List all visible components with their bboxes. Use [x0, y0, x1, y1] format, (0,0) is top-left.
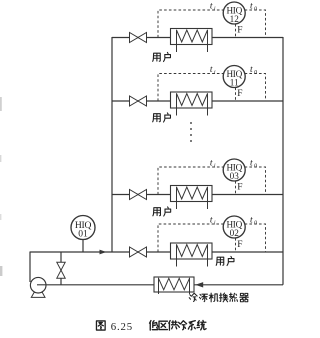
valve: branch 1 (top) two-way control valve: [130, 33, 147, 43]
dashed signal: flow sensor F line, branch 1 (top): [235, 24, 237, 38]
label t0 (outlet temperature), branch 2: [250, 65, 257, 76]
svg-text:01: 01: [78, 229, 88, 240]
valve: branch 3 two-way control valve: [130, 190, 147, 200]
ellipsis: repeated user branches: [190, 122, 192, 142]
svg-text:0: 0: [254, 220, 257, 226]
svg-text:t: t: [210, 159, 213, 169]
label ti (inlet temperature), branch 4 (bottom): [210, 216, 216, 227]
wire: branch 4 (bottom) user circuit pipe: [30, 251, 283, 253]
flow arrow into chiller heat exchanger (points left): [195, 282, 203, 287]
label ti (inlet temperature), branch 1 (top): [210, 2, 216, 13]
wire: bypass line: [60, 252, 62, 285]
controller HIQ 12 (branch 1 (top)): [223, 2, 245, 24]
label ti (inlet temperature), branch 2: [210, 65, 216, 76]
wire: branch 1 (top) user circuit pipe: [112, 37, 283, 39]
svg-text:0: 0: [254, 163, 257, 169]
dashed signal: flow sensor F line, branch 3: [235, 181, 237, 195]
controller HIQ 11 (branch 2): [223, 66, 245, 88]
controller HIQ 01 (supply header): [71, 216, 95, 240]
pump P1 (chilled water pump): [30, 277, 46, 297]
wire: branch 2 user circuit pipe: [112, 100, 283, 102]
heat exchanger: user HX branch 3: [171, 186, 213, 210]
svg-text:11: 11: [230, 78, 239, 88]
dashed signal: outlet temp sensor t0 line, branch 3: [245, 167, 266, 195]
dashed signal: inlet temp sensor ti line, branch 1 (top): [158, 10, 224, 38]
scan artifact marks, left page edge: [0, 97, 2, 276]
label: lengdongji huanreqi (chiller heat exchanger): [189, 293, 248, 302]
wire: branch 3 user circuit pipe: [112, 194, 283, 196]
valve: branch 4 (bottom) two-way control valve: [130, 247, 147, 257]
label F (flow), branch 4 (bottom): [237, 240, 242, 250]
svg-text:F: F: [237, 89, 242, 99]
wire: right return riser: [282, 37, 284, 285]
wire: chiller loop bottom pipe (return side): [194, 284, 284, 286]
label t0 (outlet temperature), branch 1 (top): [250, 2, 257, 13]
svg-text:02: 02: [230, 228, 240, 238]
heat exchanger: user HX branch 2: [171, 92, 213, 116]
label: yonghu (user) branch 3: [153, 207, 171, 216]
label F (flow), branch 3: [237, 182, 242, 192]
label: yonghu (user) branch 1: [153, 52, 171, 61]
heat exchanger: user HX branch 4 (bottom): [171, 243, 213, 267]
controller HIQ 03 (branch 3): [223, 159, 245, 181]
dashed signal: flow sensor F line, branch 2: [235, 88, 237, 102]
label: yonghu (user) branch 2: [153, 113, 171, 122]
dashed signal: inlet temp sensor ti line, branch 3: [158, 167, 224, 195]
label F (flow), branch 1 (top): [237, 25, 242, 35]
wire: HIQ 01 stem to supply pipe: [82, 240, 84, 253]
valve: branch 2 two-way control valve: [130, 96, 147, 106]
label ti (inlet temperature), branch 3: [210, 159, 216, 170]
dashed signal: flow sensor F line, branch 4 (bottom): [235, 238, 237, 252]
svg-text:F: F: [237, 240, 242, 250]
svg-text:t: t: [210, 216, 213, 226]
svg-text:F: F: [237, 182, 242, 192]
wire: left supply riser: [111, 37, 113, 252]
svg-text:6.25: 6.25: [111, 321, 133, 333]
svg-text:0: 0: [254, 70, 257, 76]
svg-text:F: F: [237, 25, 242, 35]
label: yonghu (user) branch 4: [216, 256, 234, 265]
valve: bypass valve (vertical): [57, 262, 65, 278]
svg-text:t: t: [210, 2, 213, 12]
wire: pump discharge drop (left): [29, 252, 31, 283]
label t0 (outlet temperature), branch 4 (bottom): [250, 216, 257, 227]
svg-text:0: 0: [254, 6, 257, 12]
svg-text:t: t: [210, 65, 213, 75]
svg-text:12: 12: [230, 14, 240, 24]
dashed signal: outlet temp sensor t0 line, branch 1 (top): [245, 10, 266, 38]
heat exchanger: chiller evaporator HX: [154, 277, 194, 294]
controller HIQ 02 (branch 4 (bottom)): [223, 216, 245, 238]
wire: chiller loop bottom pipe (pump suction side): [37, 284, 155, 286]
svg-text:t: t: [250, 216, 253, 226]
dashed signal: inlet temp sensor ti line, branch 2: [158, 74, 224, 102]
svg-text:t: t: [250, 159, 253, 169]
caption: figure 6.25 low-zone cooling system: [96, 321, 206, 334]
dashed signal: outlet temp sensor t0 line, branch 4 (bottom): [245, 224, 266, 252]
svg-text:t: t: [250, 2, 253, 12]
label F (flow), branch 2: [237, 89, 242, 99]
dashed signal: outlet temp sensor t0 line, branch 2: [245, 74, 266, 102]
dashed signal: inlet temp sensor ti line, branch 4 (bottom): [158, 224, 224, 252]
heat exchanger: user HX branch 1 (top): [171, 29, 213, 53]
svg-text:t: t: [250, 65, 253, 75]
svg-text:03: 03: [230, 171, 240, 181]
label t0 (outlet temperature), branch 3: [250, 159, 257, 170]
flow arrow on supply header (points right): [100, 250, 107, 255]
